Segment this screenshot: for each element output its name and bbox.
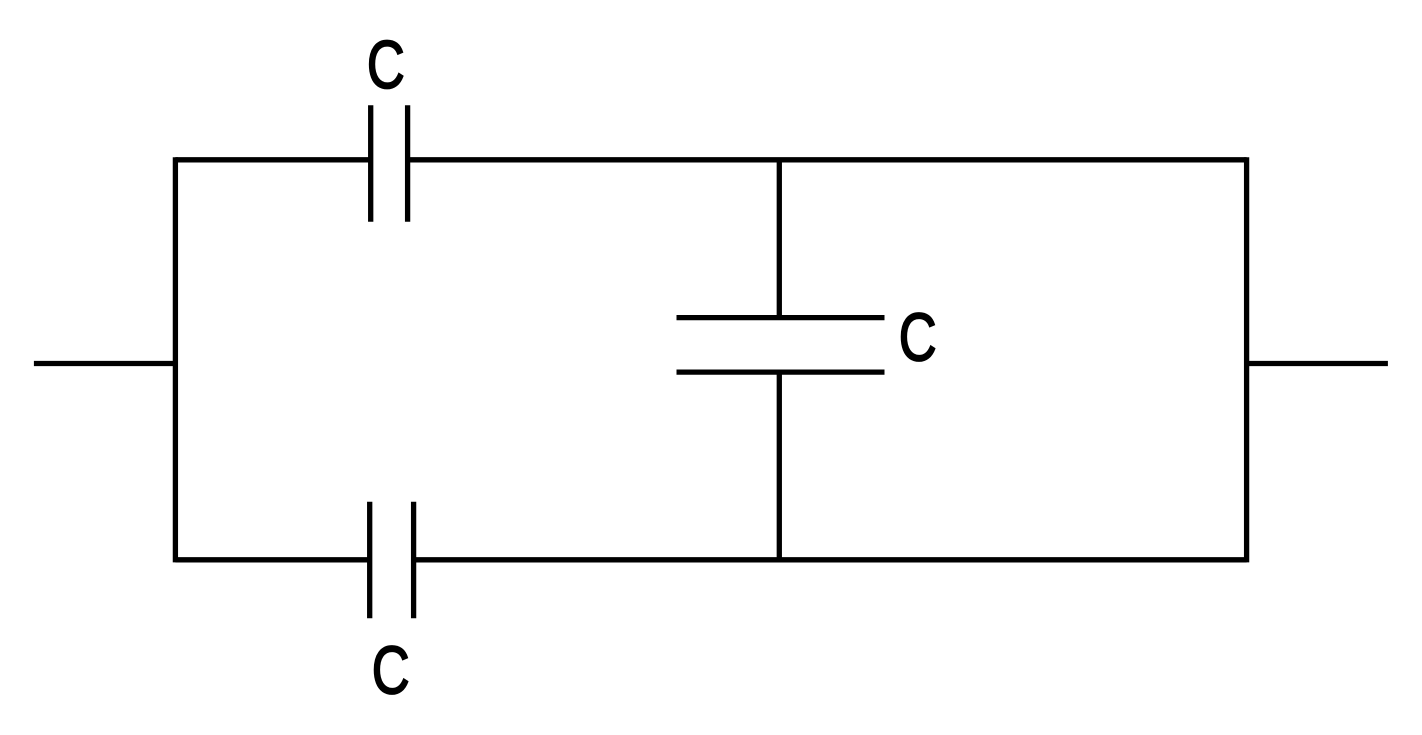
capacitor C2 (bottom)	[370, 502, 414, 619]
wire: middle vertical, lower segment	[777, 372, 782, 560]
wire: top rail, left segment	[175, 157, 370, 162]
capacitor C3 (middle)	[677, 318, 885, 373]
label C (top capacitor value)	[367, 26, 405, 102]
svg-text:C: C	[367, 26, 405, 102]
label C (bottom capacitor value)	[372, 632, 410, 708]
left vertical wire	[173, 157, 178, 562]
svg-text:C: C	[899, 299, 937, 375]
wire: bottom rail, right segment	[414, 557, 1247, 562]
right terminal lead wire	[1247, 361, 1388, 366]
right vertical wire	[1244, 157, 1249, 562]
svg-text:C: C	[372, 632, 410, 708]
wire: bottom rail, left segment	[175, 557, 369, 562]
wire: top rail, right segment	[408, 157, 1247, 162]
capacitor C1 (top)	[371, 105, 408, 222]
label C (middle capacitor value)	[899, 299, 937, 375]
wire: middle vertical, upper segment	[777, 160, 782, 318]
left terminal lead wire	[34, 361, 176, 366]
